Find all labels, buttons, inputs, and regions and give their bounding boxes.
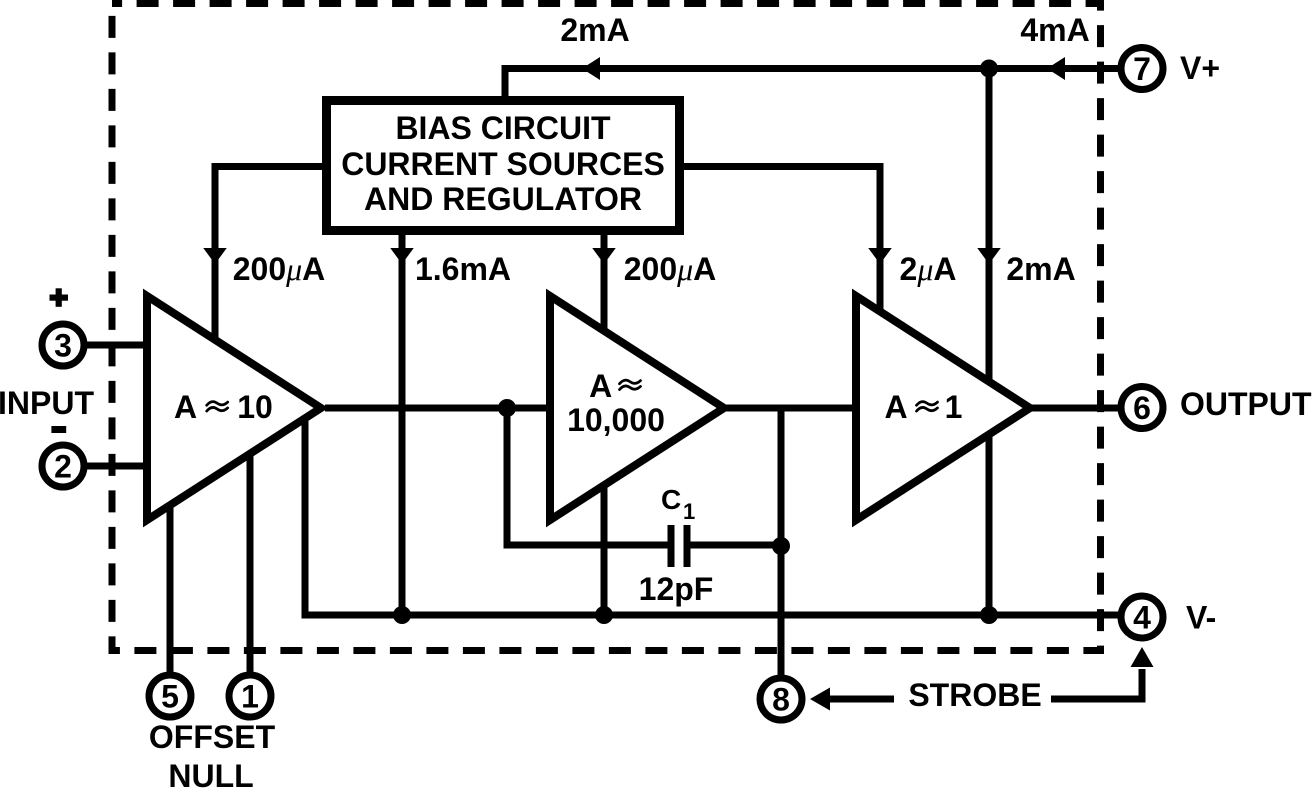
svg-text:STROBE: STROBE (908, 677, 1041, 713)
svg-text:V+: V+ (1180, 50, 1220, 86)
svg-text:200μA: 200μA (233, 251, 326, 287)
svg-text:10: 10 (237, 389, 273, 425)
svg-text:2mA: 2mA (1006, 251, 1075, 287)
junction dot C1 right (772, 537, 790, 555)
svg-text:2μA: 2μA (900, 251, 957, 287)
wire: 200uA source to A1 (215, 167, 326, 341)
svg-text:4: 4 (1133, 600, 1151, 636)
svg-text:BIAS CIRCUIT: BIAS CIRCUIT (395, 110, 611, 146)
svg-text:1: 1 (945, 389, 963, 425)
svg-text:AND REGULATOR: AND REGULATOR (364, 181, 642, 217)
wire: 2mA line V+ to V- rail (986, 69, 993, 616)
arrowhead 200uA down (203, 248, 227, 264)
svg-text:1: 1 (241, 679, 259, 715)
svg-text:2mA: 2mA (560, 12, 629, 48)
junction dot V- at 200uA (595, 606, 613, 624)
label plus (50, 295, 69, 301)
pin 7 (1121, 48, 1163, 90)
svg-text:3: 3 (54, 328, 72, 364)
pin 8 (760, 678, 802, 720)
arrowhead 2mA (left) (582, 57, 600, 80)
svg-text:8: 8 (772, 682, 790, 718)
svg-text:OFFSET: OFFSET (149, 719, 276, 755)
svg-text:1: 1 (683, 499, 695, 524)
pin 5 (149, 675, 191, 717)
bias circuit block (327, 101, 680, 231)
svg-text:200μA: 200μA (624, 251, 717, 287)
pin 3 (42, 324, 84, 366)
wire: 1.6mA source to V- rail (399, 232, 406, 615)
arrowhead strobe up (1131, 647, 1154, 667)
wire: pin3 to A1 (87, 342, 151, 349)
svg-text:12pF: 12pF (639, 571, 714, 607)
svg-text:4mA: 4mA (1020, 12, 1089, 48)
wire: pin2 to A1 (87, 463, 151, 470)
svg-text:2: 2 (54, 449, 72, 485)
arrowhead 1.6mA down (390, 248, 414, 264)
junction dot V- at 1.6mA (393, 606, 411, 624)
label minus (51, 426, 66, 433)
wire: 2uA source to A3 (680, 167, 880, 321)
svg-text:OUTPUT: OUTPUT (1180, 386, 1312, 422)
junction dot V- at 2mA (980, 606, 998, 624)
wire: strobe node vertical (output to pin 8) (778, 408, 785, 675)
pin 6 (1121, 387, 1163, 429)
junction dot A1-A2 node (498, 399, 516, 417)
svg-text:10,000: 10,000 (567, 402, 665, 438)
svg-text:C: C (661, 484, 681, 515)
wire: C1 right to strobe node (690, 542, 781, 549)
svg-text:INPUT: INPUT (0, 385, 94, 421)
arrowhead strobe (left into pin 8) (810, 688, 830, 711)
arrowhead 2uA down (868, 248, 892, 264)
svg-text:6: 6 (1133, 390, 1151, 426)
junction dot V+ rail (980, 60, 998, 78)
arrowhead 2mA-right down (977, 248, 1001, 264)
op-amp A1 (A~10) (147, 296, 321, 520)
wire: A3 output to pin 6 (1028, 405, 1118, 412)
svg-text:1.6mA: 1.6mA (415, 251, 511, 287)
wire: pin5 line (167, 501, 174, 672)
svg-text:CURRENT SOURCES: CURRENT SOURCES (341, 146, 665, 182)
svg-text:5: 5 (161, 679, 179, 715)
svg-text:A: A (174, 389, 197, 425)
wire: pin1 line (247, 450, 254, 672)
wire: 200uA source to A2 (601, 232, 608, 615)
svg-text:A: A (884, 389, 907, 425)
op-amp A3 (A~1) (856, 296, 1030, 520)
wire: strobe left segment (830, 696, 894, 703)
wire: feedback to C1 left (507, 408, 668, 545)
svg-text:A: A (589, 368, 612, 404)
arrowhead 4mA (left) (1047, 57, 1065, 80)
op-amp A2 (A~10,000) (550, 296, 724, 520)
pin 1 (229, 675, 271, 717)
svg-text:NULL: NULL (168, 758, 253, 790)
wire: V- rail (305, 414, 1118, 615)
svg-text:V-: V- (1186, 600, 1216, 636)
svg-text:7: 7 (1133, 51, 1151, 87)
wire: A2 output to A3 input (725, 405, 860, 412)
wire: A1 output to A2 input (325, 405, 554, 412)
wire: V+ top rail (505, 69, 1118, 103)
pin 4 (1121, 596, 1163, 638)
arrowhead 200uA-2 down (592, 248, 616, 264)
wire: strobe right segment up to pin 4 (1051, 669, 1142, 699)
capacitor C1 plates (668, 525, 675, 567)
IC boundary dashed border (112, 4, 1101, 651)
pin 2 (42, 445, 84, 487)
